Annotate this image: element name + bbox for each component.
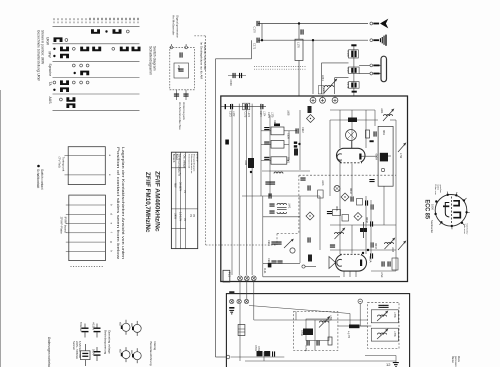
svg-text:R702: R702 (257, 346, 260, 352)
svg-text:L176: L176 (297, 42, 301, 48)
svg-text:ZF/HF-Platte: ZF/HF-Platte (60, 217, 64, 234)
svg-text:In cabinet, only for AM: In cabinet, only for AM (203, 42, 207, 70)
svg-text:An Antennenbuchse: An Antennenbuchse (178, 102, 182, 130)
svg-text:M641: M641 (287, 157, 290, 164)
svg-text:Switch contact: Switch contact (40, 169, 44, 190)
svg-text:Tuning unit: Tuning unit (62, 157, 66, 172)
svg-text:Osc. voltage: Osc. voltage (183, 155, 186, 169)
svg-text:L601: L601 (380, 108, 383, 114)
svg-text:ECC 85: ECC 85 (424, 200, 430, 220)
svg-text:L173: L173 (247, 112, 250, 118)
svg-text:C170: C170 (253, 27, 257, 34)
svg-text:IF/RF board: IF/RF board (64, 217, 68, 233)
svg-text:L172: L172 (232, 111, 235, 117)
svg-text:6,5/9 Watt GW: 6,5/9 Watt GW (78, 341, 82, 358)
svg-text:Röhre von: Röhre von (434, 185, 437, 196)
svg-text:M603: M603 (374, 243, 376, 249)
svg-text:17/M, IF: 17/M, IF (195, 154, 197, 163)
svg-text:C612: C612 (301, 127, 304, 133)
svg-text:UKW: UKW (174, 213, 177, 219)
svg-text:unten: unten (437, 185, 440, 191)
svg-text:C178: C178 (346, 82, 350, 89)
svg-text:L608: L608 (287, 110, 290, 116)
svg-text:Signal generator: Signal generator (176, 15, 180, 38)
svg-text:C174: C174 (259, 111, 262, 117)
svg-text:MW: MW (48, 52, 52, 59)
svg-text:gesehen: gesehen (439, 185, 441, 194)
svg-text:e.g 7B: e.g 7B (347, 331, 350, 338)
svg-text:Gemessen mit: Gemessen mit (187, 154, 190, 168)
svg-text:b: b (110, 204, 114, 206)
svg-text:R641: R641 (335, 206, 337, 212)
svg-text:500V: 500V (92, 349, 96, 355)
svg-text:d: d (110, 213, 114, 215)
svg-text:Betriebsspannung: Betriebsspannung (104, 330, 108, 355)
svg-text:12: 12 (386, 362, 391, 367)
svg-text:C172: C172 (229, 111, 232, 117)
svg-text:C643: C643 (267, 240, 270, 246)
svg-text:R608: R608 (273, 120, 276, 126)
svg-text:L174: L174 (262, 111, 265, 117)
svg-text:a6J: a6J (130, 350, 133, 355)
svg-text:R701: R701 (254, 345, 257, 351)
svg-text:Tube seen: Tube seen (463, 224, 465, 235)
svg-text:PL1: PL1 (227, 272, 231, 278)
svg-text:ZF/IF AM460kHz/Nc: ZF/IF AM460kHz/Nc (153, 171, 160, 232)
svg-text:600A: 600A (369, 256, 373, 263)
svg-text:D643: D643 (322, 87, 326, 94)
svg-text:Gezeichnete Schalterstellung:: Gezeichnete Schalterstellung: UKW (37, 30, 41, 81)
svg-text:An Meßsender: An Meßsender (172, 15, 176, 35)
svg-text:Messpunkt gegen: Messpunkt gegen (193, 154, 196, 172)
svg-text:Bereich: Bereich (172, 154, 175, 163)
svg-text:Werte: Werte (457, 356, 460, 363)
svg-text:L7Pb: L7Pb (393, 331, 396, 337)
svg-text:1900: 1900 (431, 204, 435, 210)
svg-text:C649: C649 (229, 80, 233, 87)
svg-text:C609: C609 (287, 133, 290, 139)
svg-text:C706: C706 (304, 346, 307, 352)
svg-text:P2: P2 (192, 214, 195, 218)
svg-text:C176: C176 (346, 51, 350, 58)
svg-text:M602: M602 (349, 188, 351, 194)
svg-text:Operating voltage: Operating voltage (108, 330, 112, 354)
svg-text:Muster: Muster (451, 356, 454, 363)
svg-text:L641: L641 (288, 203, 291, 209)
svg-text:Trimmer: Trimmer (79, 322, 83, 332)
svg-text:Position of contact slides see: Position of contact slides seen from bel… (116, 147, 121, 259)
svg-text:L7Pb: L7Pb (393, 312, 396, 318)
svg-text:L643: L643 (321, 180, 324, 186)
svg-text:Switch diagram: Switch diagram (153, 46, 157, 71)
svg-text:Bestellausführung: Bestellausführung (149, 342, 153, 366)
svg-text:Shown in position: UKW: Shown in position: UKW (41, 30, 45, 64)
svg-text:AUS: AUS (48, 97, 52, 105)
svg-text:20pF: 20pF (177, 65, 181, 71)
svg-text:Schaltkontakt: Schaltkontakt (36, 169, 40, 188)
svg-text:1,2-2,0V: 1,2-2,0V (178, 212, 181, 221)
svg-text:L7wk: L7wk (380, 272, 382, 278)
svg-text:Sprache: Sprache (48, 64, 52, 77)
svg-text:C177: C177 (346, 68, 350, 75)
svg-text:L641: L641 (321, 75, 325, 81)
svg-text:Röhrenvoltmeter an: Röhrenvoltmeter an (190, 154, 193, 174)
svg-text:M-31: M-31 (263, 268, 266, 274)
svg-text:from below: from below (466, 224, 469, 235)
svg-text:ZF/IF FM10,7MHz/Nc: ZF/IF FM10,7MHz/Nc (144, 172, 151, 233)
svg-text:C171: C171 (253, 43, 257, 50)
svg-text:Rating: Rating (153, 342, 157, 351)
svg-text:g: g (110, 241, 114, 243)
svg-text:L643: L643 (391, 247, 393, 253)
svg-text:e: e (110, 223, 114, 225)
svg-text:M642: M642 (365, 217, 367, 223)
svg-text:gemessen: gemessen (454, 356, 456, 367)
svg-text:TA: TA (48, 82, 52, 87)
svg-text:P1: P1 (189, 214, 192, 218)
svg-text:C175: C175 (267, 112, 270, 118)
svg-text:Schwingungsspg./Nc: Schwingungsspg./Nc (178, 154, 181, 177)
svg-text:C173: C173 (244, 112, 247, 118)
svg-text:L7W: L7W (399, 153, 402, 159)
svg-text:Antenna jack: Antenna jack (182, 102, 186, 120)
svg-text:L175: L175 (271, 112, 274, 118)
svg-text:50-160V: 50-160V (178, 182, 181, 191)
svg-text:(TV-Teil): (TV-Teil) (58, 157, 62, 168)
svg-text:f: f (110, 232, 114, 233)
svg-text:e: e (108, 174, 112, 176)
svg-text:L611: L611 (244, 160, 247, 166)
svg-text:UKW: UKW (46, 37, 50, 46)
svg-text:L706: L706 (329, 315, 332, 321)
svg-text:Schalterdiagramm: Schalterdiagramm (149, 46, 153, 75)
svg-text:Novalsockel: Novalsockel (430, 220, 433, 233)
svg-text:MW: MW (174, 183, 177, 188)
svg-text:h: h (110, 250, 114, 252)
svg-text:Änderungen vorbehalten!: Änderungen vorbehalten! (47, 337, 51, 367)
svg-text:R706: R706 (300, 330, 303, 336)
svg-text:a: a (108, 155, 112, 157)
svg-text:≙150V: ≙150V (92, 322, 96, 331)
svg-text:M61: M61 (382, 130, 385, 135)
